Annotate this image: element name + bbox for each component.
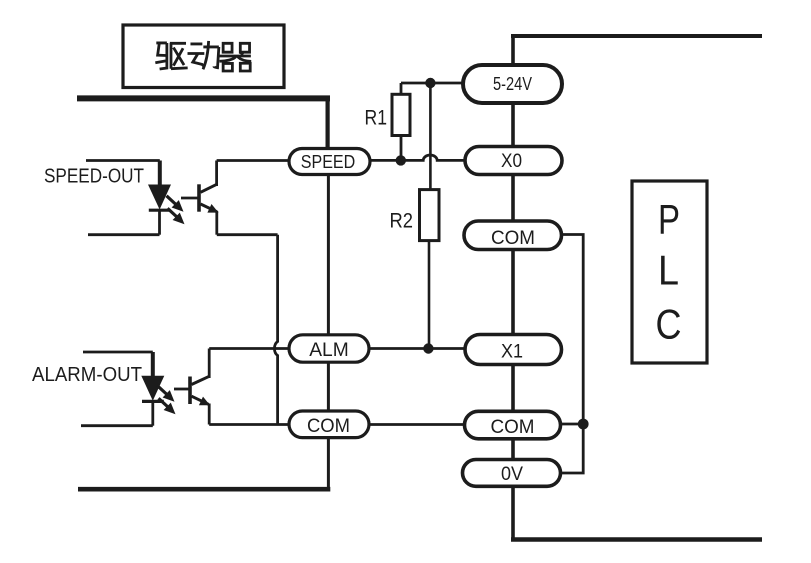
wire: branch from 5-24V junction down to R2 [429, 83, 432, 190]
resistor R2 body [420, 190, 440, 241]
wire: LED1 anode drop [158, 161, 162, 186]
svg-text:R1: R1 [365, 106, 388, 130]
terminal pill COM (plc lower) [465, 411, 561, 439]
terminal pill ALM [289, 335, 369, 362]
wire: LED2 anode drop [151, 352, 155, 376]
svg-text:ALARM-OUT: ALARM-OUT [32, 364, 142, 386]
wire: Q1 emitter down [215, 211, 218, 235]
driver label box [123, 25, 284, 88]
terminal pill COM (driver side) [289, 411, 369, 438]
svg-text:5-24V: 5-24V [493, 73, 533, 94]
wire: COM(plc lower) stub to junction [559, 423, 583, 426]
junction dot at 5-24V branch [425, 78, 435, 88]
light arrow 1 of optocoupler U1 [167, 196, 184, 212]
wire: left bus vertical through SPEED/ALM/COM to bottom rail [327, 150, 330, 490]
wire: Q1 collector up [215, 161, 218, 187]
svg-text:C: C [656, 301, 682, 348]
wire: rail drop from top rail to SPEED terminal [326, 98, 330, 152]
transistor Q1 collector arm [201, 184, 218, 192]
wire: alarm-out upper lead [83, 351, 153, 354]
transistor Q1 emitter arm with arrow [201, 204, 219, 213]
wire: Q2 emitter to COM terminal [209, 423, 292, 426]
LED D1 cathode bar [149, 209, 171, 212]
wire: PLC left boundary vertical [511, 34, 515, 540]
LED D2 (alarm optocoupler diode) [141, 376, 164, 401]
svg-text:SPEED: SPEED [301, 151, 356, 172]
svg-text:COM: COM [491, 227, 535, 249]
svg-text:R2: R2 [390, 209, 414, 233]
transistor Q2 base bar [188, 377, 192, 405]
wire: LED2 cathode drop [151, 401, 154, 425]
wire: Q2 collector to ALM terminal [209, 347, 292, 350]
wire: PLC bottom boundary [511, 537, 762, 541]
terminal pill X1 [465, 335, 562, 365]
terminal pill 5-24V [463, 65, 562, 103]
wire: Q1 collector to SPEED terminal [217, 159, 292, 162]
wire: LED1 cathode drop [158, 210, 161, 235]
wire: alarm-out lower lead [81, 424, 153, 427]
transistor Q2 base stub [174, 388, 189, 391]
transistor Q1 base stub [181, 197, 198, 200]
light arrow 2 of optocoupler U1 [168, 208, 185, 224]
driver label text 驱动器 (hand-drawn glyph strokes) [155, 41, 251, 71]
svg-text:L: L [658, 247, 679, 294]
wire: speed-out lower lead [88, 233, 160, 236]
wire: emitter drop to COM line with hop over ALM wire [274, 235, 277, 425]
terminal pill COM (plc upper) [464, 221, 562, 250]
terminal pill X0 [465, 147, 562, 175]
wire: Q2 emitter down [208, 404, 211, 425]
terminal pill SPEED [289, 149, 370, 175]
light arrow 1 of optocoupler U2 [158, 386, 175, 402]
wire: R2 bottom lead down to ALM wire [428, 241, 431, 349]
transistor Q2 collector arm [192, 376, 210, 384]
LED D2 cathode bar [142, 400, 164, 403]
svg-text:P: P [658, 196, 680, 243]
wire: Q1 emitter run right [217, 233, 278, 236]
junction dot R2 bottom on ALM wire [423, 343, 433, 353]
svg-text:ALM: ALM [309, 339, 349, 361]
light arrow 2 of optocoupler U2 [159, 398, 176, 414]
svg-text:X0: X0 [501, 151, 522, 172]
junction dot right of COM(plc lower) [578, 419, 589, 430]
resistor R1 body [392, 94, 410, 135]
wire: ALM to X1 [367, 347, 466, 350]
wire: R1 bottom lead [400, 136, 403, 161]
wire: top thick rail of driver [77, 95, 330, 101]
PLC box [632, 181, 707, 363]
wire: speed-out upper lead [86, 159, 160, 162]
svg-text:SPEED-OUT: SPEED-OUT [44, 166, 144, 188]
junction dot R1 bottom on SPEED wire [396, 155, 406, 165]
svg-text:COM: COM [491, 416, 535, 438]
wire: SPEED to X0 with hop over R2 branch [369, 155, 466, 160]
wire: 5-24V to R1 top branch [401, 82, 464, 85]
terminal pill 0V [463, 460, 561, 487]
wire: bottom thick rail of driver [78, 487, 330, 492]
wire: Q2 collector up [208, 349, 211, 379]
wire: PLC top boundary [511, 34, 762, 38]
LED D1 (speed optocoupler diode) [148, 185, 171, 210]
svg-text:0V: 0V [501, 463, 523, 485]
svg-text:X1: X1 [501, 342, 523, 363]
wire: R1 top lead [400, 83, 403, 95]
transistor Q1 base bar [197, 184, 201, 211]
wire: COM to COM [367, 423, 465, 426]
svg-text:COM: COM [307, 415, 350, 437]
wire: COM(plc) right link down to 0V [559, 235, 583, 474]
transistor Q2 emitter arm with arrow [192, 396, 211, 405]
